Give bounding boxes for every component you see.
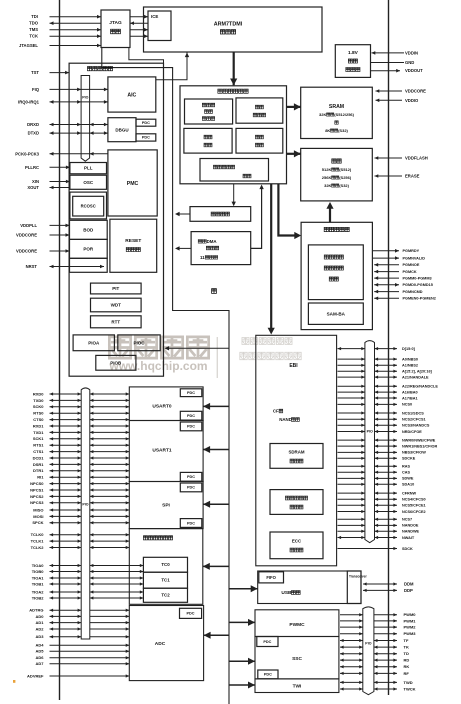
svg-text:NWR1/NBS1/CFIOR: NWR1/NBS1/CFIOR <box>402 444 437 448</box>
svg-text:RXD0: RXD0 <box>33 391 44 396</box>
svg-text:BOD: BOD <box>83 227 94 232</box>
svg-text:AD5: AD5 <box>35 649 44 654</box>
svg-text:A0/NBS0: A0/NBS0 <box>402 357 418 361</box>
svg-text:NCS0: NCS0 <box>402 403 412 407</box>
box SRAM <box>301 87 373 138</box>
box abort status <box>184 128 232 153</box>
wire PLLRC <box>25 165 70 170</box>
box memory protection unit <box>200 159 269 182</box>
svg-text:(S256): (S256) <box>339 175 352 180</box>
svg-text:32K: 32K <box>319 112 326 117</box>
svg-text:SDCKE: SDCKE <box>402 457 416 461</box>
svg-text:VDDOUT: VDDOUT <box>405 68 423 73</box>
svg-text:PWM1: PWM1 <box>404 618 417 623</box>
wire JTAGSEL <box>19 43 101 48</box>
box PDC usart0 bottom <box>180 411 202 420</box>
svg-text:NCS5/CFCE1: NCS5/CFCE1 <box>402 504 426 508</box>
wire A0/NBS0 <box>338 357 419 361</box>
wire TIOB2 <box>32 595 144 600</box>
wire APB to PWMC <box>229 619 255 626</box>
svg-text:PCK0-PCK3: PCK0-PCK3 <box>15 151 39 156</box>
wire PWM3 <box>340 631 416 636</box>
wire NRD/CFOE <box>338 430 423 434</box>
svg-text:USB: USB <box>281 590 292 596</box>
svg-text:JTAG: JTAG <box>109 20 122 26</box>
svg-text:32K: 32K <box>324 183 331 188</box>
wire TIOB1 <box>32 581 144 586</box>
svg-text:SSC: SSC <box>292 656 302 662</box>
wire AD2 <box>35 626 129 631</box>
wire VDDPLL <box>20 223 69 228</box>
svg-text:DSR1: DSR1 <box>33 462 44 467</box>
wire TXD0 <box>33 398 129 403</box>
wire NPCS0 <box>30 481 129 486</box>
svg-text:NCS7: NCS7 <box>402 518 412 522</box>
wire VDDCORE pin <box>376 89 427 94</box>
wire AD7 <box>35 661 129 666</box>
box peripheral bridge <box>190 207 251 222</box>
wire AD4 <box>35 643 129 648</box>
box TC0 <box>143 557 187 572</box>
svg-text:TC2: TC2 <box>161 593 170 598</box>
wire PGMNVALID <box>372 256 425 260</box>
box ADC <box>129 606 203 681</box>
svg-text:AD1: AD1 <box>35 620 44 625</box>
svg-text:AD4: AD4 <box>35 643 44 648</box>
svg-text:PDC: PDC <box>186 612 194 616</box>
svg-text:PWMC: PWMC <box>289 622 305 628</box>
box ARM7TDMI processor <box>144 7 323 52</box>
wire SDWE <box>338 477 414 481</box>
box EBI <box>256 335 337 566</box>
box SSC <box>255 637 339 679</box>
svg-text:PIOA: PIOA <box>88 340 100 345</box>
svg-text:XIN: XIN <box>32 179 39 184</box>
svg-text:PMC: PMC <box>127 181 139 187</box>
wire RD <box>340 658 409 663</box>
box PIT <box>91 283 142 294</box>
svg-text:PDC: PDC <box>187 486 195 490</box>
wire NPCS2 <box>30 494 129 499</box>
box Flash <box>301 148 373 201</box>
wire RXD1 <box>33 423 129 428</box>
wire FFPI to Flash <box>326 202 333 222</box>
box below POR <box>70 258 108 272</box>
svg-text:NANDOE: NANDOE <box>402 524 419 528</box>
box USB transceiver <box>347 571 367 604</box>
wire NCS7 <box>338 518 413 522</box>
box PDC usart1 top <box>180 422 202 431</box>
svg-text:ADVREF: ADVREF <box>27 673 44 678</box>
svg-text:Transceiver: Transceiver <box>349 574 367 578</box>
box PDC adc <box>180 608 202 618</box>
svg-text:USART0: USART0 <box>152 404 172 410</box>
svg-text:(S512): (S512) <box>339 167 352 172</box>
svg-text:NPCS1: NPCS1 <box>30 487 44 492</box>
wire AD1 <box>35 620 129 625</box>
wire NCS0 <box>338 403 413 407</box>
svg-text:ADTRG: ADTRG <box>29 608 43 613</box>
svg-text:TK: TK <box>404 645 409 650</box>
svg-text:CFRNW: CFRNW <box>402 491 417 495</box>
watermark hqchip <box>13 337 301 683</box>
wire APB to USB <box>229 585 258 592</box>
wire PWM1 <box>340 618 416 623</box>
box BOD <box>70 220 108 239</box>
svg-text:(S32): (S32) <box>339 183 349 188</box>
box ICE <box>148 11 171 41</box>
box peripheral DMA controller <box>191 232 251 265</box>
wire A21/NANDALE <box>338 375 430 379</box>
wire PGMNOE <box>374 263 420 267</box>
wire peripheral bridge to APB <box>175 212 190 216</box>
svg-text:TMS: TMS <box>29 27 38 32</box>
wire APB to TC <box>203 563 229 570</box>
box address decoder <box>236 98 283 123</box>
svg-text:DTXD: DTXD <box>28 131 39 136</box>
wire XOUT <box>27 185 70 190</box>
svg-text:PWM3: PWM3 <box>404 631 417 636</box>
svg-text:NCS1/SDCS: NCS1/SDCS <box>402 411 424 415</box>
box reset controller <box>110 219 157 272</box>
wire TCLK2 <box>31 545 130 550</box>
svg-text:(S512/256): (S512/256) <box>334 112 354 117</box>
svg-text:NANDWE: NANDWE <box>402 530 420 534</box>
svg-text:TIOB1: TIOB1 <box>32 581 45 586</box>
svg-text:TST: TST <box>31 70 39 75</box>
box PDC usart1 bottom <box>180 472 202 481</box>
svg-text:RD: RD <box>404 658 410 663</box>
svg-text:NCS2/CFCS1: NCS2/CFCS1 <box>402 418 426 422</box>
wire MC to peripheral bridge <box>232 184 236 206</box>
wire TIOB0 <box>32 569 144 574</box>
svg-text:SRAM: SRAM <box>329 104 344 110</box>
svg-text:DCD1: DCD1 <box>33 455 45 460</box>
wire NCS2/CFCS1 <box>338 418 426 422</box>
wire TWCK <box>340 686 416 691</box>
svg-text:ADC: ADC <box>155 641 166 647</box>
svg-text:SAM-BA: SAM-BA <box>327 311 346 316</box>
wire NWR1/NBS1/CFIOR <box>338 444 438 448</box>
wire NPCS1 <box>30 487 129 492</box>
wire VDDIN <box>372 50 419 55</box>
svg-text:RK: RK <box>404 664 410 669</box>
box PIOC <box>118 335 160 351</box>
wire peripheral DMA to APB <box>175 246 191 250</box>
box embedded flash controller <box>185 99 233 124</box>
svg-text:DBGU: DBGU <box>115 127 128 132</box>
svg-text:MISO: MISO <box>33 507 43 512</box>
svg-text:IRQ0-IRQ1: IRQ0-IRQ1 <box>18 99 40 104</box>
wire DSR1 <box>33 462 129 467</box>
svg-text:USART1: USART1 <box>152 448 172 454</box>
box misalignment detection <box>236 128 283 153</box>
svg-text:DRXD: DRXD <box>27 122 39 127</box>
svg-text:ERASE: ERASE <box>405 174 420 179</box>
wire ADVREF <box>27 673 129 678</box>
svg-text:NBS3/CFIOW: NBS3/CFIOW <box>402 451 426 455</box>
svg-text:A[15:2], A[20:16]: A[15:2], A[20:16] <box>402 370 433 374</box>
wire TMS <box>29 27 148 32</box>
svg-text:NCS3/NANDCS: NCS3/NANDCS <box>402 424 430 428</box>
wire PWM0 <box>340 612 416 617</box>
svg-text:PDC: PDC <box>187 391 195 395</box>
box PDC usart0 top <box>180 389 202 397</box>
svg-text:WDT: WDT <box>111 303 121 308</box>
svg-text:SDRAM: SDRAM <box>288 450 304 455</box>
wire TIOA1 <box>32 575 144 580</box>
svg-text:CF: CF <box>273 409 279 414</box>
wire TD <box>340 651 409 656</box>
svg-text:PDC: PDC <box>187 425 195 429</box>
svg-text:A1/NBS2: A1/NBS2 <box>402 364 418 368</box>
svg-text:(S32): (S32) <box>338 128 348 133</box>
svg-text:TWCK: TWCK <box>404 686 416 691</box>
wire TWD <box>340 680 413 685</box>
svg-text:VDDCORE: VDDCORE <box>405 89 426 94</box>
wire GND <box>371 60 414 65</box>
wire SDA10 <box>338 483 415 487</box>
wire SDCK <box>338 547 414 551</box>
wire NCS1/SDCS <box>338 411 425 415</box>
wire A17/BA1 <box>338 396 418 400</box>
wire AIC to ARM interrupt <box>156 53 189 80</box>
svg-text:CTS0: CTS0 <box>33 417 44 422</box>
wire D[15:0] <box>338 347 416 351</box>
wire NCS4/CFCS0 <box>338 498 426 502</box>
box SPI <box>129 482 203 529</box>
box DBGU <box>108 118 136 142</box>
svg-text:OSC: OSC <box>83 180 94 185</box>
svg-text:TIOB2: TIOB2 <box>32 595 45 600</box>
box TC2 <box>143 588 187 602</box>
wire RXD0 <box>33 391 129 396</box>
svg-text:A22/REG/NANDCLE: A22/REG/NANDCLE <box>402 385 438 389</box>
svg-text:TIOA0: TIOA0 <box>32 563 45 568</box>
wire RK <box>340 664 409 669</box>
right pin bus <box>388 0 390 695</box>
wire peripheral DMA to MC <box>251 185 264 249</box>
wire VDDOUT <box>371 68 424 73</box>
pio column EBI right <box>365 341 375 543</box>
wire A16/BA0 <box>338 390 418 394</box>
wire IRQ0-IRQ1 <box>18 99 108 104</box>
svg-text:AD2: AD2 <box>35 626 44 631</box>
wire PGMRDY <box>372 249 419 253</box>
svg-text:SDA10: SDA10 <box>402 483 414 487</box>
wire AD3 <box>35 634 129 639</box>
wire ARM to memory controller <box>230 52 237 85</box>
wire MC down to EBI <box>268 184 275 335</box>
wire NWAIT <box>338 536 415 540</box>
svg-text:PGMD0-PGMD15: PGMD0-PGMD15 <box>403 283 433 287</box>
wire PGMEN0-PGMEN2 <box>374 297 436 301</box>
svg-text:NAND: NAND <box>279 417 292 422</box>
box timer counter <box>129 529 203 605</box>
wire TCLK0 <box>31 532 130 537</box>
wire APB to TWI <box>229 682 255 689</box>
svg-text:PDC: PDC <box>187 521 195 525</box>
svg-text:D[15:0]: D[15:0] <box>402 347 416 351</box>
box USART1 <box>129 421 203 482</box>
svg-text:TF: TF <box>404 638 409 643</box>
wire VDDFLASH <box>375 156 428 161</box>
wire NPCS3 <box>30 500 129 505</box>
svg-text:TIOB0: TIOB0 <box>32 569 45 574</box>
svg-text:DDP: DDP <box>404 588 413 593</box>
svg-text:TCLK1: TCLK1 <box>31 539 45 544</box>
wire TST <box>31 70 69 75</box>
wire PCK0-PCK3 <box>15 151 108 156</box>
svg-text:SDCK: SDCK <box>402 547 413 551</box>
svg-text:RESET: RESET <box>125 238 141 244</box>
svg-text:PGMCK: PGMCK <box>403 270 417 274</box>
svg-text:NPCS3: NPCS3 <box>30 500 44 505</box>
box PIOB <box>96 355 136 370</box>
box PDC dbgu lower <box>136 134 156 141</box>
svg-text:A21/NANDALE: A21/NANDALE <box>402 375 429 379</box>
svg-text:AD3: AD3 <box>35 634 44 639</box>
wire TIOA0 <box>32 563 144 568</box>
svg-text:PDC: PDC <box>142 136 150 140</box>
wire SCK1 <box>33 436 129 441</box>
svg-text:NWR0/NWE/CFWE: NWR0/NWE/CFWE <box>402 438 436 442</box>
box POR <box>70 239 108 258</box>
wire NRST <box>26 264 104 269</box>
svg-text:NPCS2: NPCS2 <box>30 494 44 499</box>
wire TCLK1 <box>31 539 130 544</box>
svg-text:VDDIN: VDDIN <box>405 50 418 55</box>
svg-text:FIFO: FIFO <box>266 575 276 580</box>
svg-text:RAS: RAS <box>402 465 410 469</box>
node bridge label <box>212 289 217 294</box>
svg-text:ARM7TDMI: ARM7TDMI <box>214 21 243 27</box>
svg-text:XOUT: XOUT <box>27 185 39 190</box>
box PMC <box>108 150 157 216</box>
box PDC spi top <box>180 483 202 492</box>
svg-text:RTT: RTT <box>111 319 120 324</box>
wire RF <box>340 671 409 676</box>
left pin bus <box>59 0 61 700</box>
wire MC to Flash <box>287 150 301 157</box>
svg-text:TIOA2: TIOA2 <box>32 589 45 594</box>
pio column system controller <box>81 76 90 162</box>
svg-text:A16/BA0: A16/BA0 <box>402 390 418 394</box>
wire TK <box>340 645 409 650</box>
wire RTS1 <box>33 443 129 448</box>
svg-text:PDC: PDC <box>263 640 271 644</box>
wire TIOA2 <box>32 589 144 594</box>
wire ERASE <box>375 174 420 179</box>
svg-text:PDC: PDC <box>264 673 272 677</box>
wire PGMM0-PGMM3 <box>374 276 431 280</box>
wire A1/NBS2 <box>338 364 419 368</box>
svg-text:TDO: TDO <box>29 21 39 26</box>
svg-text:RCOSC: RCOSC <box>81 204 96 209</box>
box RCOSC <box>73 196 104 216</box>
wire TF <box>340 638 409 643</box>
box PDC twi <box>258 670 278 679</box>
svg-text:FIQ: FIQ <box>32 87 40 92</box>
wire NANDOE <box>338 524 419 528</box>
svg-text:AD7: AD7 <box>35 661 44 666</box>
wire DTXD <box>28 131 108 136</box>
svg-text:TCLK0: TCLK0 <box>31 532 45 537</box>
wire SDCKE <box>338 457 416 461</box>
svg-text:SPI: SPI <box>162 503 170 509</box>
svg-text:VDDFLASH: VDDFLASH <box>405 156 428 161</box>
svg-text:PGMM0-PGMM3: PGMM0-PGMM3 <box>403 276 432 280</box>
wire PGMNCMD <box>374 290 423 294</box>
svg-text:1.8V: 1.8V <box>348 50 359 56</box>
box AIC <box>108 77 156 112</box>
svg-text:NCS4/CFCS0: NCS4/CFCS0 <box>402 498 426 502</box>
box PDC dbgu upper <box>136 119 156 126</box>
wire MC to ROM <box>278 184 301 239</box>
box PDC ssc <box>257 637 278 647</box>
box PDC spi bottom <box>180 519 202 528</box>
wire APB to SSC <box>229 658 255 665</box>
box RCOSC container <box>70 192 107 219</box>
wire SCK0 <box>33 404 129 409</box>
svg-text:SCK0: SCK0 <box>33 404 44 409</box>
svg-text:TDI: TDI <box>31 14 38 19</box>
box PIOA <box>73 335 114 351</box>
svg-text:SDWE: SDWE <box>402 477 414 481</box>
wire NANDWE <box>338 530 420 534</box>
svg-text:PGMRDY: PGMRDY <box>403 249 420 253</box>
svg-text:PIOC: PIOC <box>133 340 145 345</box>
wire CTS0 <box>33 417 129 422</box>
svg-text:PGMNOE: PGMNOE <box>403 263 420 267</box>
box memory controller <box>180 86 287 184</box>
svg-text:SCK1: SCK1 <box>33 436 44 441</box>
box RTT <box>91 316 142 328</box>
pio column lower left <box>81 388 90 639</box>
wire CTS1 <box>33 449 129 454</box>
svg-text:PGMNVALID: PGMNVALID <box>403 256 426 260</box>
wire DRXD <box>27 122 108 127</box>
wire APB to USART0 <box>203 403 229 410</box>
wire MOSI <box>33 514 129 519</box>
wire JTAG debug B / APB bridge bus <box>102 48 229 704</box>
box WDT <box>91 298 142 312</box>
wire VDDCORE to BOD <box>16 233 69 238</box>
svg-text:NRD/CFOE: NRD/CFOE <box>402 430 422 434</box>
svg-text:AD0: AD0 <box>35 614 44 619</box>
svg-text:PDC: PDC <box>187 475 195 479</box>
box TWI <box>255 679 339 693</box>
box PWMC <box>255 610 339 637</box>
svg-text:TXD1: TXD1 <box>33 430 44 435</box>
wire DCD1 <box>33 455 130 460</box>
wire RAS <box>338 465 411 469</box>
svg-text:PDC: PDC <box>187 414 195 418</box>
box OSC <box>70 175 107 189</box>
pio column bottom right <box>363 607 374 695</box>
svg-text:RTS0: RTS0 <box>33 411 44 416</box>
svg-text:SPCK: SPCK <box>32 520 43 525</box>
box system controller <box>69 63 163 376</box>
svg-text:PLLRC: PLLRC <box>25 165 39 170</box>
svg-text:PWM0: PWM0 <box>404 612 417 617</box>
wire NWR0/NWE/CFWE <box>338 438 436 442</box>
wire AD0 <box>35 614 129 619</box>
svg-text:NPCS0: NPCS0 <box>30 481 44 486</box>
svg-text:PDC: PDC <box>142 121 150 125</box>
box USB device <box>258 571 361 604</box>
box 1.8V voltage regulator <box>335 45 370 78</box>
